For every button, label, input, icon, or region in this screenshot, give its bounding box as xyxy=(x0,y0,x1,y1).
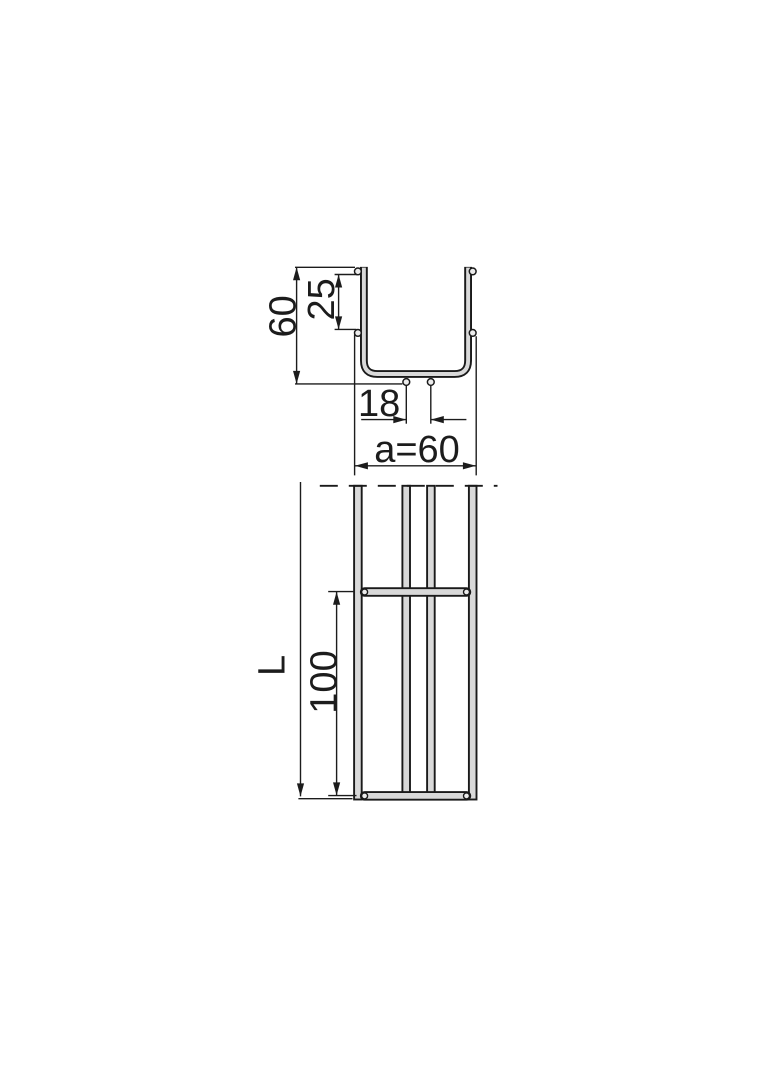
dimension 18 extension line right xyxy=(430,386,432,424)
dimension a=60 extension line right xyxy=(475,336,477,475)
dimension 25 arrow down xyxy=(335,316,342,329)
dimension a=60 arrow left xyxy=(355,462,368,469)
dimension 60 arrow up xyxy=(293,267,300,280)
wire circle bottom-right xyxy=(427,379,434,386)
dimension 25 line xyxy=(338,275,340,330)
dimension 18 line left segment xyxy=(361,419,406,421)
plan view longitudinal bar 4 (right outer) xyxy=(469,486,477,800)
wire circle mid-left xyxy=(355,330,362,337)
U-profile cross-section gray fill xyxy=(364,268,468,374)
wire circle mid-right xyxy=(469,330,476,337)
svg-text:a=60: a=60 xyxy=(374,429,460,471)
svg-text:25: 25 xyxy=(301,278,343,320)
dimension L extension line bottom xyxy=(298,798,352,800)
dimension L line xyxy=(300,482,302,796)
dimension 60 arrow down xyxy=(293,371,300,384)
dimension 100 arrow up xyxy=(333,592,340,605)
svg-text:L: L xyxy=(251,655,293,676)
rung 1 right end circle xyxy=(464,589,470,595)
U-profile cross-section outline xyxy=(364,267,468,374)
rung 2 right end circle xyxy=(464,793,470,799)
wire circle top-right xyxy=(469,268,476,275)
plan view longitudinal bar 1 (left outer) xyxy=(354,486,362,800)
wire circle bottom-left xyxy=(403,379,410,386)
plan view rung 2 (bottom) xyxy=(361,792,471,800)
plan view break dashed line xyxy=(320,485,498,487)
dimension 60 extension line bottom xyxy=(295,383,402,385)
dimension 25 extension line top xyxy=(335,274,357,276)
dimension 18 arrow right-pointing xyxy=(393,416,406,423)
dimension 60 line xyxy=(296,267,298,384)
svg-text:18: 18 xyxy=(358,383,400,425)
wire circle top-left xyxy=(355,268,362,275)
dimension 60 extension line top xyxy=(295,266,355,268)
plan view rung 1 xyxy=(361,588,471,596)
dimension 18 arrow left-pointing xyxy=(431,416,444,423)
rung 1 left end circle xyxy=(362,589,368,595)
rung 2 left end circle xyxy=(362,793,368,799)
dimension 100 arrow down xyxy=(333,782,340,795)
dimension 25 arrow up xyxy=(335,275,342,288)
dimension 18 line right segment xyxy=(431,419,467,421)
dimension 100 line xyxy=(336,592,338,796)
dimension a=60 extension line left xyxy=(354,335,356,476)
dimension a=60 line xyxy=(355,465,477,467)
plan view longitudinal bar 2 xyxy=(402,486,410,793)
plan view longitudinal bar 3 xyxy=(427,486,435,793)
svg-text:100: 100 xyxy=(303,650,345,713)
dimension a=60 arrow right xyxy=(463,462,476,469)
dimension 18 extension line left xyxy=(405,386,407,424)
svg-text:60: 60 xyxy=(263,295,305,337)
dimension L arrow down xyxy=(297,783,304,796)
dimension 100 extension line top xyxy=(328,591,354,593)
dimension 100 extension line bottom xyxy=(328,795,356,797)
dimension 25 extension line bottom xyxy=(335,328,357,330)
